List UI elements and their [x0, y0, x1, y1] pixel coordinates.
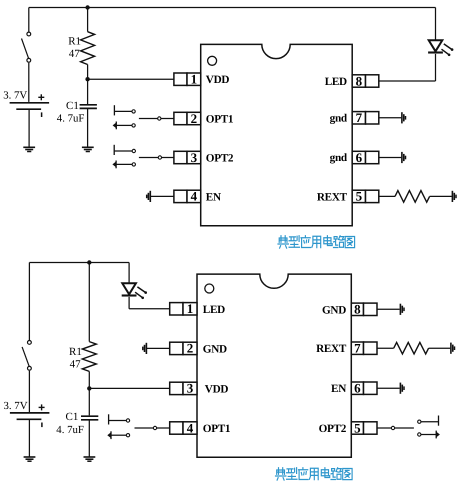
svg-text:gnd: gnd [330, 152, 348, 164]
wire C1 to ground (bottom) [88, 420, 90, 457]
wire battery- to ground [28, 420, 30, 457]
svg-text:R1: R1 [68, 36, 81, 48]
pin 4 box (bottom) [170, 420, 197, 435]
select contact bar (OPT2 bottom) [438, 416, 440, 426]
contact a OPT1 [132, 110, 135, 113]
arrow terminal (OPT1 low) [113, 122, 117, 130]
wire REXT to ground (bottom) [429, 347, 451, 349]
wire pin 8 to ground (bottom) [377, 308, 400, 310]
wire R1 to VDD node (bottom) [88, 371, 90, 388]
wire pin 8 to LED cathode [379, 80, 436, 82]
LED D1 [428, 40, 453, 56]
pin 3 box (bottom) [170, 381, 197, 396]
svg-text:1: 1 [191, 72, 198, 87]
contact b OPT2 [132, 163, 135, 166]
wire top rail (battery+ to LED) [29, 262, 129, 264]
svg-text:EN: EN [331, 383, 346, 395]
svg-text:8: 8 [356, 73, 363, 88]
wire OPT1 common to pin 4 [135, 427, 170, 429]
svg-text:1: 1 [187, 301, 194, 316]
pin 6 box [352, 150, 379, 165]
pin 8 box (bottom) [351, 302, 377, 317]
pin 5 box [352, 189, 379, 204]
svg-text:5: 5 [356, 189, 363, 204]
junction node R1/C1/VDD [85, 77, 89, 81]
svg-text:OPT2: OPT2 [206, 153, 234, 165]
resistor R1 47 [81, 32, 95, 65]
wire pin 5 OPT2 common [377, 427, 414, 429]
wire pin 7 to REXT resistor (bottom) [377, 347, 394, 349]
svg-text:2: 2 [187, 341, 194, 356]
wire OPT1 common to pin 2 [139, 118, 174, 120]
svg-text:REXT: REXT [317, 191, 348, 203]
wire bar to contact a (OPT1 bottom) [109, 420, 127, 422]
svg-text:VDD: VDD [205, 383, 229, 395]
capacitor C1 4.7uF [80, 105, 97, 109]
wire contact b to arrow (OPT2 bottom) [421, 434, 436, 436]
LED D1 (bottom) [122, 283, 147, 299]
battery BT1 3.7V (bottom) [10, 404, 50, 427]
caption: 典型应用电路图 (typical application circuit) [278, 236, 355, 248]
wire GND terminal to pin 2 [146, 347, 169, 349]
wire pin 6 EN to ground (bottom) [377, 387, 400, 389]
ground terminal (pin2 GND) [143, 343, 147, 354]
ground terminal (pin6) [402, 152, 406, 163]
caption: 典型应用电路图 (typical application circuit, bottom) [276, 468, 353, 480]
contact b OPT1 (bottom) [126, 434, 129, 437]
resistor REXT (bottom) [394, 342, 429, 354]
wire pin 6 to ground [379, 157, 401, 159]
wire node to pin 1 VDD [88, 78, 174, 80]
wire OPT2 common to pin 3 [139, 157, 174, 159]
pin 7 box [352, 110, 379, 125]
wire C1 to ground [87, 109, 89, 147]
wire rail down to LED (bottom) [128, 263, 130, 284]
wire LED to pin 1 [129, 308, 170, 310]
battery BT1 3.7V [10, 94, 50, 117]
wire bar to OPT2 contact a [114, 150, 132, 152]
wire EN terminal to pin 4 [150, 195, 174, 197]
wire arrow to contact b (OPT1 bottom) [111, 434, 126, 436]
svg-text:4. 7uF: 4. 7uF [56, 424, 84, 436]
ground (battery bottom) [24, 457, 36, 461]
ground terminal (REXT bottom) [451, 343, 455, 354]
pin 7 box (bottom) [351, 341, 377, 356]
wire rail to R1 (bottom) [88, 263, 90, 342]
pin 6 box (bottom) [351, 381, 377, 396]
pin 8 box [352, 73, 379, 88]
wire contact a to bar (OPT2 bottom) [421, 421, 439, 423]
wire node to pin 3 VDD [89, 387, 169, 389]
resistor REXT (top) [395, 191, 430, 203]
pin 1 box [174, 72, 201, 87]
svg-text:2: 2 [191, 111, 198, 126]
contact common OPT1 [158, 117, 161, 120]
pin 5 box (bottom) [351, 420, 377, 435]
svg-text:GND: GND [203, 343, 227, 355]
contact a OPT2 (bottom) [418, 420, 421, 423]
wire REXT resistor to ground [430, 195, 452, 197]
ground (C1) [82, 147, 94, 151]
svg-text:3. 7V: 3. 7V [3, 90, 27, 102]
switch S1 (bottom) [22, 341, 31, 371]
ground (battery) [23, 147, 35, 151]
junction node R1/C1/VDD (bottom) [87, 386, 91, 390]
wire pin 7 to ground [379, 117, 401, 119]
svg-text:4: 4 [187, 420, 194, 435]
contact a OPT1 (bottom) [126, 419, 129, 422]
wire battery+ to switch [28, 263, 30, 341]
svg-text:REXT: REXT [316, 343, 347, 355]
resistor R1 47 (bottom) [82, 342, 96, 372]
svg-text:LED: LED [203, 304, 225, 316]
svg-text:3. 7V: 3. 7V [4, 400, 28, 412]
svg-text:GND: GND [322, 304, 346, 316]
contact common OPT2 (bottom) [391, 426, 394, 429]
op-amp/driver IC U1 (8-pin, bottom) [197, 274, 351, 457]
svg-text:R1: R1 [69, 346, 82, 358]
contact b OPT2 (bottom) [418, 433, 421, 436]
wire node to C1 [87, 79, 89, 104]
wire switch to battery [28, 63, 30, 102]
select contact bar (OPT1 high) [113, 105, 115, 115]
ground terminal (REXT) [452, 191, 456, 202]
select contact bar (OPT2 high) [113, 145, 115, 155]
wire battery+ to switch [28, 8, 30, 32]
arrow terminal (OPT2 bottom) [436, 431, 440, 439]
arrow terminal (OPT2 low) [112, 161, 116, 169]
ground terminal (pin7) [402, 112, 406, 123]
contact a OPT2 [132, 149, 135, 152]
contact b OPT1 [132, 124, 135, 127]
wire pin 5 to REXT resistor [379, 195, 395, 197]
wire bar to OPT1 contact a [114, 110, 131, 112]
svg-text:C1: C1 [66, 100, 79, 112]
wire up to LED [435, 54, 437, 81]
svg-text:47: 47 [69, 48, 81, 60]
capacitor C1 4.7uF (bottom) [81, 416, 98, 420]
wire arrow to OPT1 contact b [116, 124, 132, 126]
ground terminal (pin6 bottom) [400, 383, 404, 394]
svg-text:3: 3 [187, 381, 194, 396]
svg-text:OPT1: OPT1 [206, 114, 234, 126]
ground terminal (EN) [147, 191, 151, 202]
svg-text:6: 6 [354, 381, 361, 396]
svg-text:6: 6 [356, 150, 363, 165]
ground (C1 bottom) [84, 457, 96, 461]
pin 2 box (bottom) [170, 341, 197, 356]
select contact bar (OPT1 bottom) [108, 414, 110, 424]
svg-text:EN: EN [206, 191, 221, 203]
pin 3 box [174, 150, 201, 165]
wire LED cathode down [128, 297, 130, 309]
wire top rail (battery+ to LED anode) [29, 7, 436, 9]
wire arrow to OPT2 contact b [116, 163, 132, 165]
pin 1 box (bottom) [170, 301, 197, 316]
svg-text:4. 7uF: 4. 7uF [57, 112, 85, 124]
arrow terminal (OPT1 bottom) [107, 431, 111, 439]
pin 2 box [174, 111, 201, 126]
contact common OPT2 [158, 156, 161, 159]
svg-text:4: 4 [191, 189, 198, 204]
wire node to C1 (bottom) [88, 388, 90, 415]
contact common OPT1 (bottom) [153, 426, 156, 429]
switch S1 [22, 32, 31, 62]
wire switch to battery [28, 371, 30, 412]
svg-text:5: 5 [354, 420, 361, 435]
svg-text:OPT2: OPT2 [319, 423, 347, 435]
svg-text:7: 7 [354, 341, 361, 356]
junction node rail / R1 top [87, 260, 91, 264]
svg-text:8: 8 [354, 302, 361, 317]
svg-text:LED: LED [325, 76, 347, 88]
svg-text:7: 7 [356, 110, 363, 125]
svg-text:47: 47 [70, 359, 82, 371]
op-amp/driver IC U1 (8-pin) [201, 44, 353, 225]
wire LED anode to top rail [435, 8, 437, 41]
wire battery- to ground [28, 109, 30, 147]
svg-text:OPT1: OPT1 [203, 423, 231, 435]
svg-text:VDD: VDD [206, 74, 230, 86]
pin 4 box [174, 189, 201, 204]
svg-text:gnd: gnd [330, 112, 348, 124]
ground terminal (pin8 bottom) [400, 304, 404, 315]
junction node VDD rail / R1 top [85, 5, 89, 9]
wire R1 to VDD node [87, 65, 89, 80]
svg-text:3: 3 [191, 150, 198, 165]
wire rail to R1 [87, 8, 89, 32]
svg-text:C1: C1 [66, 411, 79, 423]
